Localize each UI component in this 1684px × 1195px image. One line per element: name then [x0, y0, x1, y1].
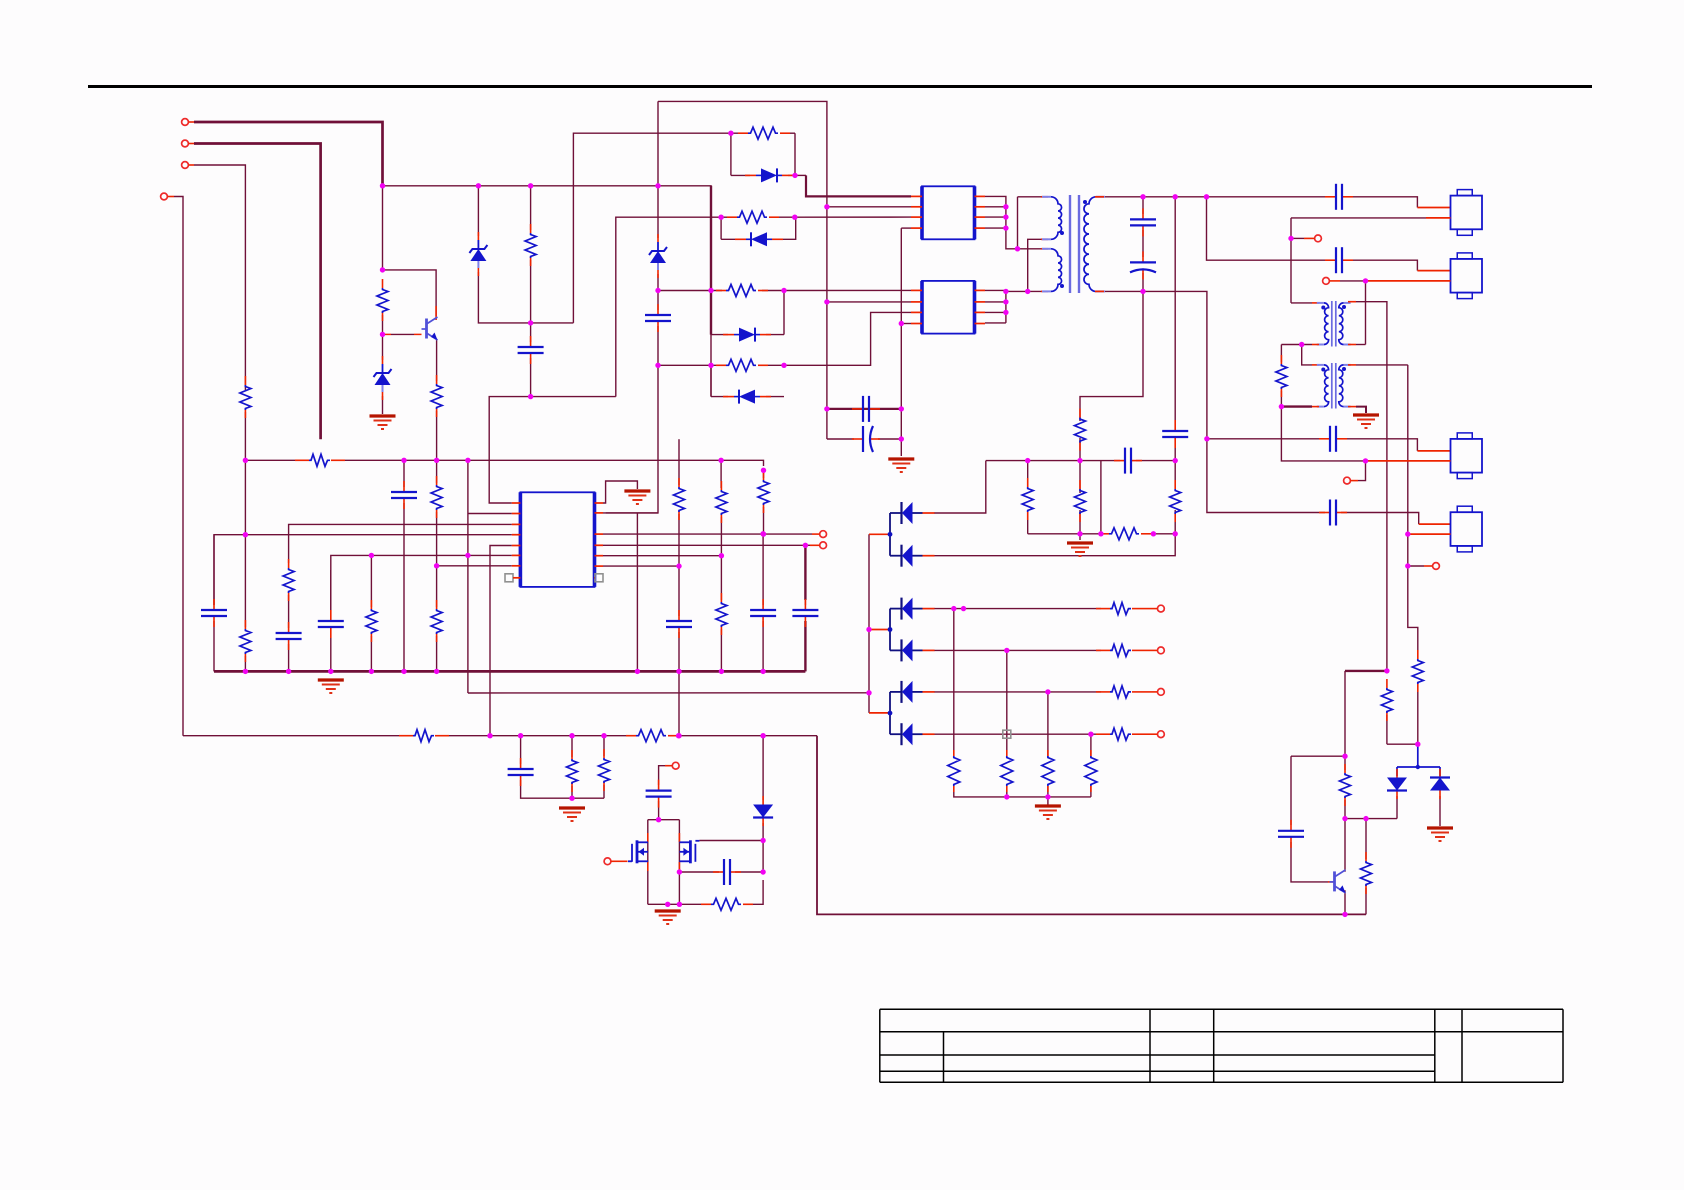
- junction snub8: [1173, 531, 1178, 536]
- wire U3 p7: [437, 565, 512, 567]
- wire r37 b: [1386, 715, 1388, 744]
- wire C1 link: [530, 323, 532, 342]
- terminal J8: [1146, 647, 1164, 654]
- resistor R27: [431, 600, 442, 642]
- wire cpair Lv: [826, 409, 828, 439]
- wire r35 col: [603, 736, 605, 756]
- wire x214 colb: [213, 621, 215, 671]
- wire x1345 col: [1344, 671, 1346, 756]
- ground GND2: [888, 459, 914, 472]
- wire c20 r: [735, 871, 763, 873]
- pin U3 L1: [512, 502, 521, 504]
- wire U3 p1: [489, 397, 616, 503]
- ground GND5: [624, 491, 650, 504]
- junction main-zener: [476, 183, 481, 188]
- diode DA3b: [890, 723, 935, 745]
- junction snub1: [1077, 458, 1082, 463]
- junction c20 r: [760, 869, 765, 874]
- junction gnd rail1: [1004, 794, 1009, 799]
- terminal J12: [810, 542, 826, 549]
- junction r7: [676, 563, 681, 568]
- pin U2 L2: [911, 301, 922, 303]
- wire x214 col: [213, 535, 215, 605]
- wire x763 low: [762, 736, 764, 800]
- wire U3 r6: [603, 555, 721, 557]
- ground GND6: [318, 680, 344, 693]
- capacitor C10: [1114, 448, 1142, 474]
- capacitor C15: [666, 610, 692, 638]
- diode D3: [745, 168, 793, 182]
- junction x827 p2: [824, 204, 829, 209]
- junction snub7: [1151, 531, 1156, 536]
- wire cpair top: [827, 408, 901, 410]
- wire r35 colb: [603, 785, 605, 798]
- terminal J13: [665, 762, 679, 769]
- pin U3 R6: [595, 565, 604, 567]
- diode D5: [735, 232, 783, 246]
- wire x679 colc: [678, 632, 680, 736]
- pin U1 R1: [975, 195, 986, 197]
- resistor R23: [240, 620, 251, 662]
- capacitor C4: [852, 426, 880, 452]
- wire d9 b: [1396, 796, 1398, 819]
- pin T3 tl: [1312, 364, 1319, 366]
- connector CON4: [1451, 506, 1483, 552]
- resistor R25: [366, 600, 377, 642]
- wire r39 col: [1365, 819, 1367, 859]
- wire c18 colb: [521, 780, 604, 798]
- wire J3 feed: [194, 165, 245, 382]
- junction T1 p1: [1015, 246, 1020, 251]
- pin U3 L4: [512, 534, 521, 536]
- wire main rail thick part: [710, 186, 712, 335]
- wire mos lrail: [647, 820, 649, 905]
- ground GND9: [1427, 828, 1453, 841]
- diode D6: [723, 328, 771, 342]
- wire T2T3 link: [1302, 345, 1312, 365]
- wire x954: [953, 609, 955, 757]
- pin T1 w1t red: [1041, 196, 1048, 198]
- junction rail460 f: [761, 468, 766, 473]
- diode D10: [1430, 769, 1450, 799]
- wire x1091 b: [1090, 786, 1092, 797]
- junction r735 e: [676, 733, 681, 738]
- wire row3 right: [783, 291, 785, 335]
- wire row1 dio b: [788, 174, 795, 176]
- junction r735 c: [569, 733, 574, 738]
- wire out3: [934, 691, 1101, 693]
- wire row4 left: [710, 365, 712, 396]
- wire x763 cold: [762, 621, 764, 671]
- pin Q5 base: [1328, 881, 1334, 883]
- wire row4 bot: [711, 396, 728, 398]
- pin U1 L1: [911, 195, 922, 197]
- ground GND8: [655, 911, 681, 924]
- resistor R4: [738, 127, 790, 139]
- junction tap3: [866, 690, 871, 695]
- polarity T3a: [1321, 368, 1325, 372]
- wire x805 colb: [804, 621, 806, 671]
- junction y818: [1363, 816, 1368, 821]
- wire r39 b: [1365, 888, 1367, 914]
- wire U2 out bus: [985, 290, 1006, 323]
- pin U3 R5: [595, 555, 604, 557]
- junction Q1 top: [380, 267, 385, 272]
- ic U2: [922, 281, 975, 334]
- wire opto cap col: [1290, 756, 1292, 825]
- zener D2: [469, 232, 487, 276]
- wire x1175: [1174, 197, 1176, 426]
- pin U2 R4: [975, 323, 986, 325]
- wire cpair bot R: [878, 438, 901, 440]
- wire x1291 riser: [1290, 218, 1292, 303]
- junction rail460 c: [434, 458, 439, 463]
- polarity T2b: [1342, 305, 1346, 309]
- junction p6a: [369, 553, 374, 558]
- wire r34 colb: [571, 786, 573, 798]
- wire U1 out bus: [985, 196, 1041, 248]
- ic U3: [520, 492, 594, 587]
- junction U2 bus3: [1003, 310, 1008, 315]
- junction bus c: [328, 669, 333, 674]
- wire IC2 pin4: [901, 323, 911, 325]
- wire J1 feed: [194, 122, 383, 186]
- wire Q1 collector lead: [383, 270, 437, 316]
- capacitor C3: [852, 396, 880, 422]
- capacitor C14: [391, 481, 417, 509]
- resistor R16: [1096, 728, 1146, 740]
- wire tap bus: [868, 534, 870, 713]
- resistor R34: [567, 750, 578, 792]
- core T2: [1332, 301, 1336, 347]
- junction main-x658: [655, 183, 660, 188]
- wire x1143 a: [1142, 197, 1144, 214]
- junction y461: [1363, 458, 1368, 463]
- core T1: [1070, 195, 1079, 293]
- junction x658-row4: [655, 363, 660, 368]
- pin U3 Rsq: [595, 574, 603, 582]
- junction row4 x711: [708, 363, 713, 368]
- wire x330 col: [330, 570, 332, 616]
- junction sec-1207: [1204, 194, 1209, 199]
- wire top loop: [658, 101, 827, 409]
- junction r735 d: [601, 733, 606, 738]
- wire J16 link: [1358, 461, 1366, 481]
- wire zpair dl: [1396, 767, 1398, 776]
- wire sec top rail: [1104, 196, 1331, 198]
- capacitor C19: [646, 780, 672, 808]
- wire zpair dr: [1439, 767, 1441, 776]
- junction r6: [719, 553, 724, 558]
- wire row3 top: [658, 290, 722, 292]
- pin T3 tr: [1348, 364, 1356, 366]
- resistor R40: [1412, 650, 1423, 692]
- resistor R9: [1075, 480, 1086, 522]
- wire T2 topleft: [1291, 302, 1312, 304]
- pin conn2 p1: [1417, 270, 1450, 272]
- zener D1: [374, 356, 392, 400]
- pin U3 L2: [512, 513, 521, 515]
- wire x1175 b: [1174, 442, 1176, 461]
- junction x901 ic2p4: [899, 321, 904, 326]
- wire U1 p3 out: [985, 216, 1006, 218]
- wire U3 r7: [603, 565, 679, 567]
- wire x721 colb: [720, 517, 722, 600]
- pin conn1 p2: [1426, 217, 1451, 219]
- wire x1143 b: [1142, 230, 1144, 257]
- capacitor C20: [713, 859, 741, 885]
- junction T1 link: [1025, 289, 1030, 294]
- junction main-R3: [528, 183, 533, 188]
- junction x1207 y439: [1204, 436, 1209, 441]
- wire U2 p2 out: [985, 301, 1006, 303]
- wire x1048 b: [1047, 786, 1049, 805]
- wire x901 riser: [900, 228, 902, 409]
- wire x1091: [1090, 734, 1092, 757]
- wire J4 feed: [174, 197, 183, 736]
- pin T1 w2t red: [1041, 248, 1048, 250]
- junction bus g: [635, 669, 640, 674]
- pin U3 R3: [595, 533, 604, 535]
- resistor R19: [1042, 750, 1054, 792]
- junction w2bot: [1003, 289, 1008, 294]
- wire out1: [934, 608, 1101, 610]
- junction bus j: [760, 669, 765, 674]
- pin U1 R3: [975, 216, 986, 218]
- junction r4: [761, 531, 766, 536]
- junction U1 bus4: [1003, 225, 1008, 230]
- wire J13 link: [659, 766, 665, 785]
- junction r37: [1415, 742, 1420, 747]
- resistor R7: [716, 359, 768, 371]
- diode D7: [723, 390, 771, 404]
- wire rail735 b: [449, 735, 636, 737]
- pin T2 br: [1348, 344, 1356, 346]
- junction r41: [1279, 404, 1284, 409]
- wire U3 p2: [468, 513, 512, 515]
- junction U1 bus3: [1003, 214, 1008, 219]
- wire x1175 d: [934, 510, 1175, 556]
- wire row4 top b: [762, 364, 784, 366]
- pin U3 R1: [595, 502, 604, 504]
- junction bus f: [434, 669, 439, 674]
- junction y397: [528, 394, 533, 399]
- terminal J10: [1146, 731, 1164, 738]
- junction cpair R: [899, 406, 904, 411]
- ground GND10: [1353, 415, 1379, 428]
- wire row2 bot: [721, 238, 740, 240]
- pin T1 sec top: [1095, 196, 1104, 198]
- resistor R41: [1276, 355, 1287, 397]
- pin U3 L7: [512, 565, 521, 567]
- wire x1143 drop: [1080, 291, 1143, 421]
- transformer T1 primary2: [1042, 249, 1062, 292]
- pin U3 Rsq red: [594, 577, 597, 579]
- pin U3 L3: [512, 523, 521, 525]
- wire U3 r2: [603, 512, 658, 514]
- junction row3 x711: [708, 288, 713, 293]
- resistor R21: [295, 454, 345, 466]
- junction row2 out: [792, 215, 797, 220]
- capacitor C23: [1319, 500, 1347, 526]
- wire r34 col: [571, 736, 573, 757]
- diode DA2a: [890, 598, 935, 620]
- resistor R24: [283, 559, 294, 601]
- wire U1 p4 out: [985, 227, 1006, 229]
- wire IC2 pin2: [827, 301, 911, 303]
- wire x679 colb: [678, 514, 680, 616]
- wire out thick: [1345, 670, 1387, 672]
- wire x404 colb: [403, 503, 405, 671]
- capacitor C2: [645, 304, 671, 332]
- resistor R33: [626, 730, 678, 742]
- wire Q1 collector node: [382, 186, 384, 270]
- ground GND3: [1067, 543, 1093, 556]
- junction p6b: [465, 553, 470, 558]
- capacitor C8: [1130, 251, 1156, 279]
- pin U2 L1: [911, 289, 922, 291]
- wire snub bot r: [1145, 533, 1175, 535]
- junction out4: [1088, 732, 1093, 737]
- junction p4a: [243, 532, 248, 537]
- wire row1 top a: [731, 132, 744, 134]
- pin U2 R2: [975, 301, 986, 303]
- wire dpair1 bar: [889, 513, 891, 556]
- pin T1 sec bot: [1095, 290, 1104, 292]
- junction mos bot a: [665, 902, 670, 907]
- junction snub6: [1098, 531, 1103, 536]
- junction dpair1: [888, 532, 893, 537]
- wire jog r37: [1387, 743, 1418, 745]
- capacitor C5: [1325, 184, 1353, 210]
- pin conn3 p1: [1417, 450, 1450, 452]
- pin U3 R2: [595, 512, 604, 514]
- wire C1 bot: [530, 358, 532, 397]
- capacitor C16: [750, 599, 776, 627]
- connector CON3: [1451, 433, 1483, 479]
- diode DA1b: [890, 545, 935, 567]
- resistor R32: [399, 730, 449, 742]
- wire T3 botright: [1356, 407, 1366, 413]
- mosfet Q3: [628, 840, 648, 863]
- wire T1 w2 bot: [1006, 290, 1041, 292]
- wire T2 right top: [1348, 302, 1387, 671]
- junction out2: [1004, 648, 1009, 653]
- wire down to opto: [817, 736, 1366, 915]
- wire d10 b: [1439, 796, 1441, 826]
- junction rail322: [528, 320, 533, 325]
- polarity T2a: [1321, 306, 1325, 310]
- wire r38 a: [1344, 756, 1346, 770]
- wire x288 colb: [288, 644, 290, 671]
- transformer T1 primary1: [1042, 197, 1062, 240]
- wire R41 col: [1280, 345, 1282, 363]
- resistor R22: [240, 376, 251, 418]
- pin tap2: [869, 629, 888, 631]
- transformer T3 right: [1339, 365, 1351, 407]
- junction out1: [951, 606, 956, 611]
- junction p7: [434, 563, 439, 568]
- wire row1 to IC1: [806, 175, 911, 196]
- wire T2 botleft: [1281, 344, 1312, 346]
- capacitor C22: [1319, 426, 1347, 452]
- wire T1 p1 top: [1017, 197, 1019, 249]
- wire row1 right: [794, 133, 796, 175]
- pin U1 R2: [975, 206, 986, 208]
- wire U3 r5: [603, 544, 805, 546]
- diode D8: [753, 796, 773, 826]
- capacitor C11: [201, 599, 227, 627]
- polarity dot T1c: [1083, 200, 1087, 204]
- wire y461: [1281, 407, 1365, 461]
- zener D4: [649, 234, 667, 278]
- junction out3: [1045, 689, 1050, 694]
- junction r735 f: [760, 733, 765, 738]
- wire out2: [934, 649, 1101, 651]
- resistor R15: [1096, 686, 1146, 698]
- transistor Q5: [1330, 870, 1346, 893]
- wire T3 topright: [1356, 364, 1408, 366]
- junction sec-1175: [1173, 194, 1178, 199]
- terminal J16: [1344, 477, 1358, 484]
- wire Q5 coll: [1344, 819, 1347, 871]
- pin conn4 p2: [1408, 533, 1451, 535]
- pin conn3 p2: [1366, 460, 1451, 462]
- wire x1007 b: [1006, 786, 1008, 797]
- wire x371 col: [370, 555, 372, 607]
- terminal J9: [1146, 689, 1164, 696]
- wire x1100: [1100, 461, 1102, 534]
- wire c22 to conn3: [1341, 439, 1417, 451]
- wire zener D2 bot: [478, 272, 573, 323]
- polarity dot T1b: [1060, 284, 1064, 288]
- wire c19 b: [658, 801, 660, 820]
- junction main-J1: [380, 183, 385, 188]
- junction x827 ic2p2: [824, 299, 829, 304]
- wire row2 feed: [616, 217, 721, 396]
- wire r5 thick: [804, 545, 806, 600]
- wire x1365: [1365, 281, 1367, 345]
- junction cpair L: [824, 406, 829, 411]
- wire snub top r: [1136, 460, 1175, 462]
- wire x1407: [1408, 365, 1418, 657]
- wire R3 drop: [530, 186, 532, 230]
- wire row3 bot: [711, 334, 728, 336]
- wire x763 colc: [762, 534, 764, 605]
- pin U3 Lsq red: [513, 577, 520, 579]
- wire row3 bot r: [766, 334, 784, 336]
- junction row1 left: [728, 131, 733, 136]
- wire r41 b: [1280, 391, 1282, 407]
- resistor R31: [758, 471, 769, 513]
- wire T1 w1 top: [1018, 196, 1042, 198]
- wire row1 left: [730, 133, 732, 175]
- junction U2 bus2: [1003, 299, 1008, 304]
- junction x763 a: [760, 531, 765, 536]
- wire x1007: [1006, 650, 1008, 757]
- junction rail460 e: [718, 458, 723, 463]
- wire x763 colb: [763, 507, 765, 534]
- core T3: [1332, 363, 1336, 409]
- wire cpair Rv: [900, 409, 902, 456]
- pin T1 w1b red: [1041, 238, 1048, 240]
- wire x404 col: [403, 460, 405, 487]
- wire r5 to J12: [805, 544, 810, 546]
- resistor R1: [377, 279, 388, 321]
- resistor R29: [716, 481, 727, 523]
- wire x245 col: [244, 382, 246, 390]
- pin U1 R4: [975, 227, 986, 229]
